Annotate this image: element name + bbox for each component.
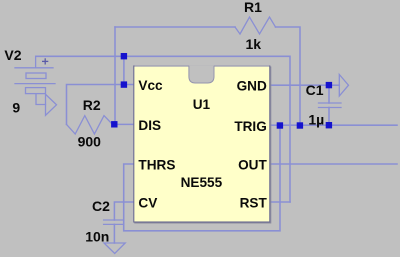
svg-text:RST: RST [240, 196, 268, 211]
svg-text:GND: GND [237, 79, 267, 94]
svg-text:1k: 1k [246, 36, 262, 52]
svg-text:U1: U1 [193, 97, 211, 112]
svg-text:C2: C2 [92, 198, 110, 214]
svg-text:R1: R1 [244, 0, 262, 15]
svg-text:1µ: 1µ [308, 112, 324, 128]
svg-text:R2: R2 [83, 97, 101, 113]
svg-text:DIS: DIS [138, 118, 161, 133]
svg-text:V2: V2 [4, 47, 21, 63]
svg-text:C1: C1 [306, 82, 324, 98]
svg-text:10n: 10n [85, 229, 109, 245]
svg-text:Vcc: Vcc [138, 78, 163, 93]
svg-text:900: 900 [78, 134, 102, 150]
svg-text:TRIG: TRIG [234, 119, 266, 134]
svg-text:OUT: OUT [238, 158, 267, 173]
svg-text:CV: CV [138, 196, 157, 211]
svg-text:9: 9 [12, 100, 20, 116]
svg-text:NE555: NE555 [181, 175, 223, 190]
svg-text:THRS: THRS [138, 158, 175, 173]
